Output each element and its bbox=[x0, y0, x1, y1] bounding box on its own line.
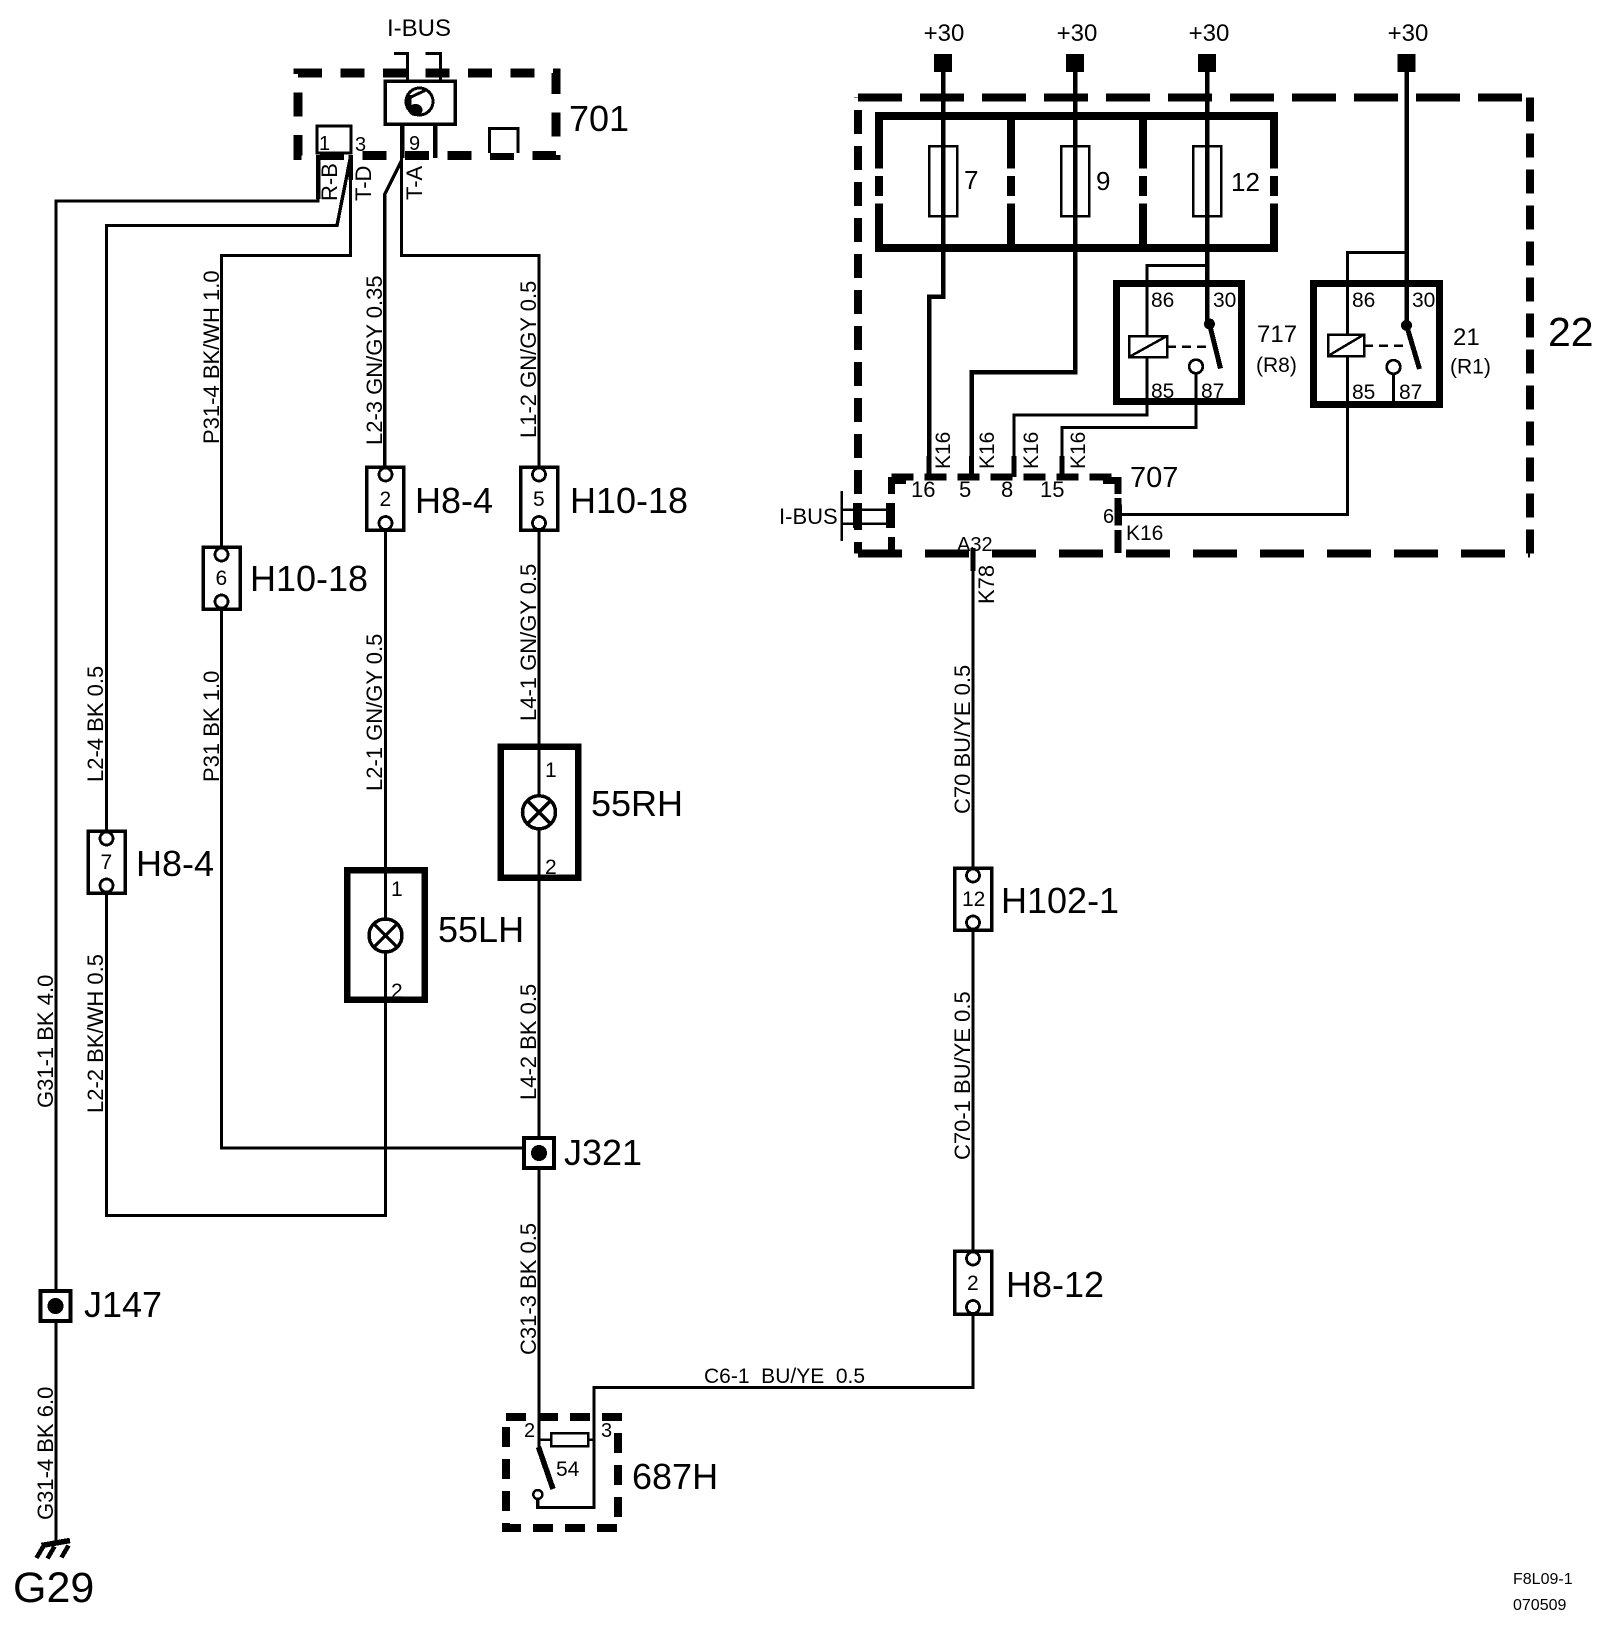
svg-text:I-BUS: I-BUS bbox=[779, 504, 838, 529]
relay 21 box bbox=[1314, 284, 1440, 405]
svg-text:H102-1: H102-1 bbox=[1001, 880, 1119, 921]
svg-text:9: 9 bbox=[1096, 166, 1110, 196]
wire +30 through fuse 7 to 707 pin16 bbox=[929, 72, 943, 474]
relay 717 coil bbox=[1129, 336, 1167, 357]
707 pin8 stub bbox=[1012, 456, 1017, 477]
svg-text:2: 2 bbox=[380, 488, 392, 511]
fuse/relay box 22 dashed border bbox=[858, 98, 1530, 554]
junction J147 bbox=[41, 1291, 71, 1321]
svg-text:(R1): (R1) bbox=[1450, 356, 1491, 379]
svg-text:H10-18: H10-18 bbox=[570, 480, 688, 521]
svg-text:+30: +30 bbox=[1388, 20, 1429, 47]
svg-text:T-D: T-D bbox=[351, 166, 376, 201]
svg-text:T-A: T-A bbox=[402, 165, 427, 200]
relay 21 pin87 stub bbox=[1392, 374, 1395, 401]
svg-text:R-B: R-B bbox=[317, 163, 342, 201]
label H102-1 bbox=[1001, 880, 1119, 921]
power +30 terminal 4 bbox=[1398, 54, 1416, 72]
fuse label 9 bbox=[1096, 166, 1110, 196]
wire label T-A bbox=[402, 165, 427, 200]
svg-text:30: 30 bbox=[1213, 289, 1236, 312]
power +30 terminal 1 bbox=[934, 54, 952, 72]
svg-text:P31-4 BK/WH 1.0: P31-4 BK/WH 1.0 bbox=[199, 270, 224, 444]
svg-text:(R8): (R8) bbox=[1256, 354, 1297, 377]
wire C6-1 to 687H pin3 bbox=[594, 1314, 973, 1416]
svg-text:L4-2 BK 0.5: L4-2 BK 0.5 bbox=[516, 984, 541, 1100]
687H switch lever bbox=[539, 1447, 554, 1489]
svg-text:1: 1 bbox=[545, 759, 557, 782]
wire C70-1 to H8-12 bbox=[971, 930, 974, 1251]
connector H8-4 pin 7 bbox=[88, 831, 125, 893]
connector H10-18 pin 6 bbox=[203, 547, 240, 609]
svg-text:55LH: 55LH bbox=[438, 909, 524, 950]
svg-text:K16: K16 bbox=[1020, 432, 1043, 469]
wire P31 lower to J321 bbox=[222, 609, 524, 1148]
label J147 bbox=[84, 1284, 162, 1325]
wire +30 through fuse 12 to relay 717 pin30 bbox=[1205, 72, 1210, 324]
module 707 dashed box bbox=[892, 477, 1119, 553]
switch 687H dashed box bbox=[506, 1417, 618, 1528]
svg-text:22: 22 bbox=[1548, 309, 1594, 355]
svg-text:K78: K78 bbox=[974, 565, 999, 604]
power +30 label 1 bbox=[924, 20, 965, 47]
701 unit symbol bbox=[406, 88, 433, 116]
svg-text:15: 15 bbox=[1040, 477, 1064, 502]
687H pin labels bbox=[524, 1420, 612, 1442]
connector H8-4 pin 2 bbox=[367, 467, 404, 530]
relay 21 pin86 wire bbox=[1348, 253, 1407, 335]
wire L4-1 to lamp 55RH bbox=[537, 530, 540, 746]
svg-text:070509: 070509 bbox=[1513, 1597, 1566, 1614]
svg-text:K16: K16 bbox=[1067, 432, 1090, 469]
power +30 label 3 bbox=[1189, 20, 1230, 47]
svg-text:2: 2 bbox=[391, 980, 403, 1003]
label H8-4 (pin2) bbox=[415, 480, 493, 521]
wire label C70-1 BU/YE 0.5 bbox=[950, 991, 975, 1160]
svg-text:J321: J321 bbox=[564, 1132, 642, 1173]
relay 717 pin85 wire to 707 pin8 bbox=[1014, 357, 1147, 474]
svg-text:12: 12 bbox=[1231, 167, 1260, 197]
svg-text:L2-1 GN/GY 0.5: L2-1 GN/GY 0.5 bbox=[362, 634, 387, 791]
svg-text:L4-1 GN/GY 0.5: L4-1 GN/GY 0.5 bbox=[516, 564, 541, 721]
relay 21 pin87 terminal bbox=[1387, 360, 1401, 374]
svg-text:G31-4 BK 6.0: G31-4 BK 6.0 bbox=[33, 1387, 58, 1520]
wire label L2-2 BK/WH 0.5 bbox=[83, 954, 108, 1113]
fuse F7 bbox=[929, 146, 957, 216]
wire +30 through fuse 9 to 707 pin5 bbox=[972, 72, 1076, 474]
svg-text:30: 30 bbox=[1412, 289, 1435, 312]
svg-text:K16: K16 bbox=[976, 432, 999, 469]
wire label L4-1 GN/GY 0.5 bbox=[516, 564, 541, 721]
relay 21 pin labels bbox=[1352, 289, 1435, 404]
wire label G31-1 BK 4.0 bbox=[33, 975, 58, 1108]
wire label K78 bbox=[974, 565, 999, 604]
svg-text:6: 6 bbox=[216, 567, 228, 590]
wire label L2-1 GN/GY 0.5 bbox=[362, 634, 387, 791]
ground symbol G29 bbox=[37, 1541, 71, 1559]
fuse block box bbox=[873, 112, 1280, 248]
label J321 bbox=[564, 1132, 642, 1173]
svg-text:3: 3 bbox=[355, 134, 366, 156]
687H resistor bbox=[539, 1433, 595, 1446]
label H8-4 (pin7) bbox=[136, 843, 214, 884]
connector H8-12 pin 2 bbox=[955, 1251, 992, 1314]
svg-text:7: 7 bbox=[964, 165, 978, 195]
svg-text:86: 86 bbox=[1151, 289, 1174, 312]
svg-text:C6-1 BU/YE 0.5: C6-1 BU/YE 0.5 bbox=[704, 1365, 865, 1388]
wire label P31-4 BK/WH 1.0 bbox=[199, 270, 224, 444]
svg-text:85: 85 bbox=[1352, 381, 1375, 404]
pin label 1 (701) bbox=[319, 133, 330, 155]
wire label R-B bbox=[317, 163, 342, 201]
svg-text:87: 87 bbox=[1201, 380, 1224, 403]
wire labels K16 at 707 pins bbox=[932, 432, 1090, 469]
svg-text:2: 2 bbox=[524, 1420, 535, 1442]
svg-text:F8L09-1: F8L09-1 bbox=[1513, 1571, 1573, 1588]
relay 717 pin labels bbox=[1151, 289, 1236, 403]
svg-text:H8-4: H8-4 bbox=[136, 843, 214, 884]
687H switch terminal bbox=[533, 1490, 542, 1499]
wire C31-3 BK to 687H pin2 bbox=[537, 1168, 540, 1448]
svg-text:9: 9 bbox=[409, 133, 420, 155]
wire T-A trunk to H10-18 pin5 bbox=[402, 155, 540, 468]
svg-text:8: 8 bbox=[1001, 477, 1013, 502]
wire T-D to H8-4 pin7 bbox=[107, 157, 351, 831]
707 pin5 stub bbox=[969, 456, 974, 477]
svg-text:5: 5 bbox=[959, 477, 971, 502]
label 687H bbox=[632, 1456, 718, 1497]
wire label L2-3 GN/GY 0.35 bbox=[362, 275, 387, 445]
label 22 bbox=[1548, 309, 1594, 355]
wire label L2-4 BK 0.5 bbox=[83, 666, 108, 782]
svg-text:G29: G29 bbox=[13, 1564, 94, 1612]
svg-text:12: 12 bbox=[962, 888, 985, 911]
svg-text:701: 701 bbox=[569, 98, 629, 139]
relay 21 contact lever bbox=[1407, 325, 1420, 369]
svg-text:L1-2 GN/GY 0.5: L1-2 GN/GY 0.5 bbox=[516, 281, 541, 438]
I-BUS label at 707 bbox=[779, 504, 838, 529]
label G29 bbox=[13, 1564, 94, 1612]
lamp 55RH bbox=[501, 747, 579, 880]
svg-text:I-BUS: I-BUS bbox=[387, 15, 451, 42]
relay 717 contact pivot bbox=[1204, 319, 1215, 330]
wire label G31-4 BK 6.0 bbox=[33, 1387, 58, 1520]
svg-text:55RH: 55RH bbox=[591, 783, 683, 824]
svg-text:717: 717 bbox=[1257, 321, 1297, 348]
wire label T-D bbox=[351, 166, 376, 201]
junction J321 bbox=[524, 1138, 554, 1168]
svg-text:21: 21 bbox=[1453, 324, 1480, 351]
fuse F12 bbox=[1193, 146, 1221, 216]
wire label K16 at pin 6 bbox=[1126, 522, 1163, 545]
relay 717 pin87 terminal bbox=[1189, 360, 1203, 374]
svg-text:3: 3 bbox=[601, 1420, 612, 1442]
connector H10-18 pin 5 bbox=[521, 467, 558, 530]
wire branch L2-3 to H8-4 pin2 bbox=[385, 161, 402, 468]
wire +30 to relay 21 pin30 bbox=[1404, 72, 1409, 325]
wire label P31 BK 1.0 bbox=[199, 671, 224, 782]
power +30 label 4 bbox=[1388, 20, 1429, 47]
relay 717 coil-contact dashed link bbox=[1167, 345, 1206, 348]
control unit 701 dashed box bbox=[298, 73, 556, 156]
I-BUS terminal hooks bbox=[394, 52, 441, 81]
wire label C6-1 BU/YE 0.5 bbox=[704, 1365, 865, 1388]
I-BUS label at 701 bbox=[387, 15, 451, 42]
707 A32 pin stub bbox=[971, 548, 976, 571]
relay 717 box bbox=[1117, 284, 1242, 402]
707 pin 6 bbox=[1103, 505, 1122, 529]
relay 21 coil bbox=[1328, 335, 1364, 357]
wire L4-2 BK to J321 bbox=[537, 878, 540, 1138]
wire G31-4 to ground bbox=[54, 1321, 57, 1541]
svg-text:6: 6 bbox=[1103, 506, 1114, 528]
svg-text:C70 BU/YE 0.5: C70 BU/YE 0.5 bbox=[950, 665, 975, 814]
wire L2-1 to lamp 55LH bbox=[384, 530, 387, 870]
power +30 terminal 3 bbox=[1198, 54, 1216, 72]
drawing number F8L09-1 bbox=[1513, 1571, 1573, 1588]
svg-text:2: 2 bbox=[545, 856, 557, 879]
wire pin3 branch to H10-18 pin6 (P31) bbox=[222, 155, 351, 547]
fuse label 7 bbox=[964, 165, 978, 195]
svg-text:+30: +30 bbox=[1189, 20, 1230, 47]
svg-text:L2-2 BK/WH 0.5: L2-2 BK/WH 0.5 bbox=[83, 954, 108, 1113]
label 55LH bbox=[438, 909, 524, 950]
svg-text:5: 5 bbox=[533, 488, 545, 511]
label 54 bbox=[556, 1458, 580, 1481]
lamp 55LH bbox=[347, 870, 425, 1003]
svg-text:P31 BK 1.0: P31 BK 1.0 bbox=[199, 671, 224, 782]
wire pin1 to ground rail (G31-1) bbox=[56, 155, 318, 1290]
relay 717 pin87 wire to 707 pin15 bbox=[1062, 374, 1196, 475]
svg-text:+30: +30 bbox=[1057, 20, 1098, 47]
701 border notch bbox=[490, 129, 519, 154]
svg-text:K16: K16 bbox=[932, 432, 955, 469]
svg-text:85: 85 bbox=[1151, 380, 1174, 403]
pin label 9 (701) bbox=[409, 133, 420, 155]
relay 717 contact lever bbox=[1210, 324, 1221, 369]
wire L2-2 bottom link to 55LH pin2 bbox=[107, 893, 386, 1216]
label 21 (R1) bbox=[1450, 324, 1491, 379]
svg-text:16: 16 bbox=[911, 477, 935, 502]
wire label L4-2 BK 0.5 bbox=[516, 984, 541, 1100]
wire label C31-3 BK 0.5 bbox=[516, 1223, 541, 1355]
I-BUS twisted pair link bbox=[842, 491, 896, 541]
701 pin 9 stubs bbox=[402, 124, 435, 158]
label H10-18 (pin5) bbox=[570, 480, 688, 521]
svg-text:2: 2 bbox=[967, 1272, 979, 1295]
svg-text:H8-4: H8-4 bbox=[415, 480, 493, 521]
svg-text:1: 1 bbox=[391, 878, 403, 901]
svg-text:L2-4 BK 0.5: L2-4 BK 0.5 bbox=[83, 666, 108, 782]
label 55RH bbox=[591, 783, 683, 824]
svg-text:G31-1 BK 4.0: G31-1 BK 4.0 bbox=[33, 975, 58, 1108]
svg-text:86: 86 bbox=[1352, 289, 1375, 312]
707 pin labels bbox=[911, 477, 1064, 502]
relay 21 coil-contact dashed link bbox=[1364, 344, 1403, 347]
svg-text:+30: +30 bbox=[924, 20, 965, 47]
svg-text:7: 7 bbox=[101, 851, 113, 874]
fuse F9 bbox=[1061, 146, 1089, 216]
label H8-12 bbox=[1006, 1264, 1104, 1305]
701 inner unit box bbox=[385, 81, 455, 124]
svg-text:C31-3 BK 0.5: C31-3 BK 0.5 bbox=[516, 1223, 541, 1355]
svg-text:C70-1 BU/YE 0.5: C70-1 BU/YE 0.5 bbox=[950, 991, 975, 1160]
power +30 label 2 bbox=[1057, 20, 1098, 47]
svg-text:J147: J147 bbox=[84, 1284, 162, 1325]
svg-text:H8-12: H8-12 bbox=[1006, 1264, 1104, 1305]
svg-text:H10-18: H10-18 bbox=[250, 558, 368, 599]
drawing date 070509 bbox=[1513, 1597, 1566, 1614]
wire label C70 BU/YE 0.5 bbox=[950, 665, 975, 814]
wire label L1-2 GN/GY 0.5 bbox=[516, 281, 541, 438]
label A32 bbox=[957, 534, 993, 556]
svg-text:687H: 687H bbox=[632, 1456, 718, 1497]
701 pin 1 connector box bbox=[317, 126, 351, 153]
label H10-18 (pin6) bbox=[250, 558, 368, 599]
wire K78 / C70 to H102-1 bbox=[971, 571, 974, 868]
fuse label 12 bbox=[1231, 167, 1260, 197]
connector H102-1 pin 12 bbox=[955, 868, 992, 930]
relay 21 pin85 wire to 707 pin6 bbox=[1122, 356, 1348, 515]
svg-text:87: 87 bbox=[1399, 381, 1422, 404]
svg-text:54: 54 bbox=[556, 1458, 580, 1481]
707 pin15 stub bbox=[1060, 456, 1065, 477]
svg-text:1: 1 bbox=[319, 133, 330, 155]
pin3 stub bbox=[348, 155, 353, 180]
pin1 stub bbox=[316, 155, 321, 199]
relay 717 pin86 wire bbox=[1147, 266, 1207, 337]
label 717 (R8) bbox=[1256, 321, 1297, 377]
svg-text:L2-3 GN/GY 0.35: L2-3 GN/GY 0.35 bbox=[362, 275, 387, 445]
relay 21 contact pivot bbox=[1401, 320, 1412, 331]
svg-text:707: 707 bbox=[1130, 462, 1178, 494]
pin label 3 (701) bbox=[355, 134, 366, 156]
label 701 bbox=[569, 98, 629, 139]
687H internal wire bbox=[538, 1415, 594, 1508]
svg-text:K16: K16 bbox=[1126, 522, 1163, 545]
707 pin16 stub bbox=[927, 456, 932, 477]
label 707 bbox=[1130, 462, 1178, 494]
power +30 terminal 2 bbox=[1066, 54, 1084, 72]
